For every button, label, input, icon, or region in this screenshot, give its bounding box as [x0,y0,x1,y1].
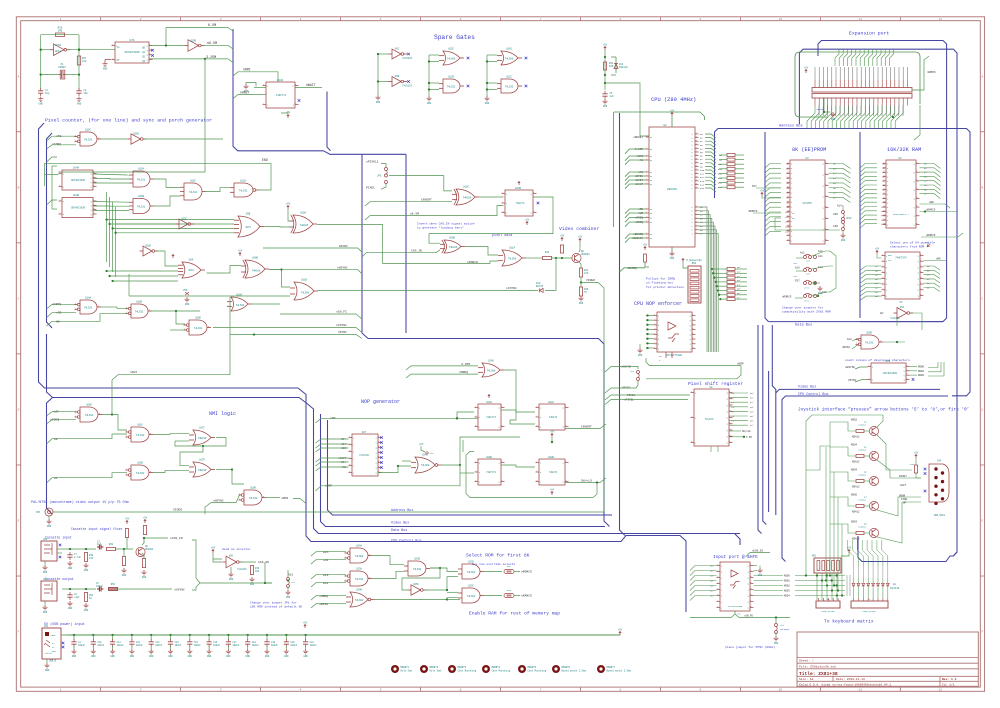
svg-text:2: 2 [565,425,566,427]
or gate U20B rowread [861,335,879,349]
wire invert to U10C [365,202,452,206]
svg-text:count column of displayed char: count column of displayed characters [845,358,910,362]
+5V inverter [212,549,214,553]
svg-text:74LS08: 74LS08 [487,370,496,373]
svg-text:6: 6 [729,422,730,424]
capacitor C6 [97,587,103,592]
transistor Q9 [136,547,145,556]
cassette output gnd [44,601,46,605]
svg-text:GND: GND [831,118,836,121]
flip-flop U13B pixeldata [505,190,533,216]
+5V pixel ff [518,181,520,185]
svg-text:6: 6 [750,594,751,596]
svg-text:1: 1 [646,175,647,177]
keyboard vertical wires up to joystick [848,540,854,566]
svg-text:Z80CPU: Z80CPU [667,188,677,191]
svg-text:3.25M: 3.25M [206,56,216,60]
svg-text:1: 1 [501,461,502,463]
svg-text:3: 3 [98,137,99,139]
wire U17D out [216,469,232,471]
svg-text:3: 3 [150,471,151,473]
svg-text:Video Bus: Video Bus [391,521,409,526]
svg-text:2: 2 [868,378,869,380]
svg-text:1: 1 [696,232,697,234]
flip-flop U28B [539,459,565,485]
wires U29B U28B [501,465,535,467]
svg-text:1: 1 [868,365,869,367]
svg-text:74LS08: 74LS08 [505,58,514,61]
svg-text:nM1: nM1 [638,171,643,174]
svg-text:74LS32: 74LS32 [413,568,422,571]
latch +5V left [876,250,878,254]
svg-text:P27: P27 [752,185,757,188]
resistor R39 [107,547,116,550]
svg-text:1: 1 [126,473,127,475]
svg-text:U13A: U13A [277,79,284,82]
bus nWAIT vertical [327,92,331,151]
svg-text:3: 3 [654,323,655,325]
svg-text:100nF: 100nF [96,585,104,588]
resistor pack A8-A15 column [727,154,735,157]
xor gate U10B porch [444,240,461,253]
q9 emitter [142,553,144,558]
or gate U24B [350,592,368,607]
svg-text:U15A: U15A [138,168,145,171]
svg-text:U19B: U19B [250,487,256,490]
svg-text:KB04: KB04 [851,444,858,447]
bus video bus horizontal [368,339,610,527]
svg-text:1: 1 [60,18,62,21]
svg-text:nRAMCS: nRAMCS [926,209,936,212]
svg-text:74LS32: 74LS32 [84,139,93,142]
vss jumper [185,292,189,295]
capacitor C5 reset [602,94,607,96]
svg-text:8: 8 [654,347,655,349]
wire inverter U25B input [166,45,185,47]
svg-text:U18A: U18A [85,297,92,300]
svg-text:Pixel shift register: Pixel shift register [688,381,743,387]
svg-text:JP1: JP1 [291,581,296,584]
svg-text:74LS32: 74LS32 [355,578,364,581]
svg-text:74HC86: 74HC86 [252,270,261,273]
svg-text:3: 3 [696,147,697,149]
wire U15A to U15C [154,179,180,188]
svg-text:VSYNC: VSYNC [338,331,347,334]
svg-text:GND: GND [638,354,643,357]
svg-text:+5V: +5V [286,202,291,205]
svg-text:A3': A3' [875,282,879,285]
svg-text:Q: Q [91,182,92,184]
svg-text:2: 2 [295,103,296,105]
svg-text:RD: RD [650,238,652,240]
and gate U15A [133,171,150,187]
and gate U23B [408,561,426,576]
svg-text:PAL/NTSC (monochrome) video ou: PAL/NTSC (monochrome) video output 1V p/… [31,500,129,505]
svg-text:7: 7 [540,18,542,21]
svg-text:Input port @ &HFE: Input port @ &HFE [713,555,758,560]
cpu left pin wires [625,149,646,154]
svg-text:1: 1 [654,314,655,316]
svg-text:3: 3 [93,181,94,183]
svg-text:74LS32: 74LS32 [194,327,203,330]
bus bottom address vertical [328,420,613,515]
svg-text:A11: A11 [718,168,723,171]
svg-text:+5V: +5V [560,234,565,237]
wire U10A out to porch [317,225,462,264]
or gate U19C [80,132,97,146]
svg-text:D0': D0' [833,163,837,166]
svg-text:Video Bus: Video Bus [798,385,816,390]
bus right vertical v3 [768,371,770,512]
svg-text:A6: A6 [640,159,644,162]
svg-text:3: 3 [349,450,350,452]
svg-text:Q: Q [727,405,728,407]
svg-text:74LS138: 74LS138 [359,454,369,457]
svg-text:on floating bus: on floating bus [646,281,673,285]
svg-text:A12: A12 [718,172,723,175]
svg-text:Q: Q [823,240,824,242]
svg-text:HM62256BLP-7: HM62256BLP-7 [893,213,909,216]
svg-text:Q: Q [914,216,915,218]
svg-text:3: 3 [93,208,94,210]
+5V reset [604,46,606,50]
svg-text:ROW1: ROW1 [918,370,925,373]
expansion pin labels upper rotated [814,67,816,80]
svg-text:1: 1 [536,461,537,463]
wire nmi cross [180,446,203,466]
svg-text:A0: A0 [56,321,60,324]
svg-text:UP: UP [903,502,907,505]
svg-text:74LS125: 74LS125 [402,57,413,60]
svg-text:KB02: KB02 [851,419,858,422]
capacitor C8 [67,595,72,597]
svg-text:Q: Q [904,379,905,381]
bus right vertical v2 [763,325,767,525]
svg-text:Q: Q [91,205,92,207]
wire buffer out [911,313,923,330]
svg-text:RD: RD [650,180,652,182]
svg-text:D7': D7' [833,196,837,199]
or gate U11B pc [294,282,314,300]
svg-text:D4': D4' [833,182,837,185]
bus right video bus horizontal [776,389,940,515]
svg-text:3: 3 [696,165,697,167]
svg-text:3: 3 [149,309,150,311]
svg-text:3: 3 [369,554,370,556]
svg-text:1: 1 [75,140,76,142]
cassette input gnd [44,561,46,565]
mounting hole MOUNT1 [391,665,399,673]
svg-text:3: 3 [916,179,917,181]
wire nCSYNC diode [545,258,556,290]
svg-text:16K: 16K [833,225,838,228]
svg-text:Q: Q [376,462,377,464]
or gate U23A [350,571,368,586]
svg-text:2: 2 [565,480,566,482]
joystick left wire loop [806,415,883,421]
keyboard matrix grid wires [795,575,845,577]
svg-text:+5V: +5V [578,235,583,238]
svg-text:RN2: RN2 [507,565,512,568]
wire nporch input [462,261,498,263]
svg-text:GND: GND [841,239,846,242]
keyboard +5V rp1 [848,549,850,553]
svg-text:Q: Q [914,198,915,200]
green feedback box [466,452,597,498]
+5V rail bottom [67,634,620,636]
svg-text:2: 2 [916,171,917,173]
no-connect wait ff [298,99,301,102]
svg-text:1: 1 [565,461,566,463]
svg-text:+5V: +5V [525,218,530,221]
svg-text:KB04: KB04 [784,595,790,598]
expansion +5V [805,69,807,73]
svg-text:74HCT74: 74HCT74 [486,471,496,474]
svg-text:74LS32: 74LS32 [467,595,476,598]
svg-text:Q: Q [914,163,915,165]
resistor R43 joystick [915,465,918,473]
svg-text:GND: GND [149,655,154,658]
svg-text:2: 2 [825,173,826,175]
svg-text:3: 3 [475,425,476,427]
wire U24B out [375,599,460,601]
svg-text:74LS08: 74LS08 [301,292,310,295]
svg-text:D0': D0' [750,392,754,395]
svg-text:Change over jumpers for: Change over jumpers for [782,306,824,310]
svg-text:12: 12 [939,689,943,692]
svg-text:D5': D5' [750,415,754,418]
wire U19D out nVSYNC [213,327,356,329]
expansion right green vertical [914,105,920,140]
resistor R37 collector [143,526,146,535]
svg-text:D6': D6' [750,420,754,423]
counter U7A 74HC393 [115,42,149,63]
svg-text:CAS_IN: CAS_IN [258,561,269,564]
svg-text:11: 11 [859,689,863,692]
svg-text:D2': D2' [833,172,837,175]
svg-text:GND: GND [303,655,308,658]
+5V tap mid caps [304,624,306,628]
nop enforcer bottom pins [665,352,667,358]
svg-text:3: 3 [692,323,693,325]
joystick kb column wires [825,423,827,576]
wire U17C out [175,438,226,447]
svg-text:74HC00: 74HC00 [198,437,207,440]
wire green loop nopgen [462,440,464,452]
jp4 wires [775,618,777,624]
svg-text:1: 1 [646,212,647,214]
svg-text:4072: 4072 [188,269,194,272]
svg-text:6: 6 [654,338,655,340]
ground C2 [76,97,81,102]
svg-text:A14: A14 [847,338,852,341]
svg-text:JP4: JP4 [780,624,785,627]
svg-text:CO4: CO4 [937,460,942,463]
latch gnd arrow [927,244,930,247]
svg-text:+5V: +5V [914,451,919,454]
svg-text:10: 10 [779,689,783,692]
resistor network RN1 [688,266,701,303]
svg-text:9: 9 [729,441,730,443]
svg-text:+5V: +5V [670,109,675,112]
svg-text:A10: A10 [718,163,723,166]
svg-text:nNOP: nNOP [737,363,744,366]
svg-text:A10: A10 [700,169,705,172]
svg-text:3: 3 [696,151,697,153]
svg-text:4.7uF: 4.7uF [74,556,82,559]
svg-text:2: 2 [750,570,751,572]
svg-text:7: 7 [540,689,542,692]
+5V U29A [488,394,490,398]
svg-text:R48: R48 [545,251,550,254]
svg-text:10: 10 [779,18,783,21]
svg-text:A13: A13 [718,177,723,180]
svg-text:D5': D5' [833,187,837,190]
svg-text:+3pF: +3pF [74,596,80,599]
svg-text:VCC: VCC [430,452,435,455]
svg-text:3: 3 [696,158,697,160]
bus right vertical v1 [758,325,762,534]
latch buffer U6A 74LS125 [897,308,907,319]
wires into U9A [156,251,178,266]
svg-text:nRFSH: nRFSH [635,175,643,178]
svg-text:1: 1 [59,172,60,174]
svg-text:4: 4 [825,195,826,197]
svg-text:Q: Q [499,462,500,464]
svg-text:1: 1 [646,233,647,235]
resistor R56 [109,587,118,590]
svg-text:Joystick interface “presses” a: Joystick interface “presses” arrow butto… [798,408,969,413]
wire U17C fb [175,440,189,442]
ram address fan [861,164,878,168]
svg-text:3: 3 [825,184,826,186]
svg-text:U12C: U12C [506,76,513,79]
svg-text:KB412: KB412 [852,436,860,439]
q9 collector wire nCAS_IN [142,538,168,545]
wire A0 to U18B [47,314,128,326]
svg-text:U23B: U23B [414,558,420,561]
buffer U6D gnd [230,567,232,572]
svg-text:KB02: KB02 [784,585,790,588]
svg-text:Q: Q [91,214,92,216]
svg-text:+5V: +5V [804,66,809,69]
svg-text:CONN_01X05: CONN_01X05 [821,610,835,613]
svg-text:nWAIT: nWAIT [635,179,643,182]
svg-text:A7': A7' [875,265,879,268]
svg-text:1: 1 [295,84,296,86]
svg-text:nRESET: nRESET [633,136,643,139]
svg-text:4: 4 [300,18,302,21]
wire n6.5M output [202,45,233,49]
wire Q8 emitter down [579,262,581,268]
svg-text:3: 3 [882,265,883,267]
svg-text:Q: Q [147,55,148,57]
svg-text:RP1: RP1 [812,555,817,558]
wire U10C out to ff [479,196,504,198]
svg-text:E: E [981,520,983,523]
svg-text:Q: Q [376,472,377,474]
svg-text:nRAMCS: nRAMCS [521,595,532,598]
svg-text:nVSYNC: nVSYNC [336,324,347,327]
svg-text:D6': D6' [833,192,837,195]
bus pixel-gen left vertical B [47,133,53,328]
svg-text:U16C: U16C [137,424,143,427]
svg-text:R39: R39 [109,543,114,546]
svg-text:D3': D3' [833,177,837,180]
svg-text:+5V: +5V [875,247,880,250]
wire 3.25M from counter [149,59,233,63]
svg-text:74LS32: 74LS32 [239,190,248,193]
wire A1 [47,473,128,483]
svg-text:HSYNC: HSYNC [339,245,348,248]
svg-text:D1': D1' [710,585,714,588]
svg-text:A: A [981,75,983,78]
svg-text:3: 3 [98,305,99,307]
wire nROMCS to border [168,571,540,573]
svg-text:KB00: KB00 [784,575,790,578]
wire osc right vertical [78,35,80,89]
resistor R34 [84,593,87,602]
svg-text:KB412: KB412 [852,538,860,541]
svg-text:Q: Q [376,457,377,459]
svg-text:nWR: nWR [929,201,934,204]
svg-text:3: 3 [696,140,697,142]
svg-text:3: 3 [208,326,209,328]
svg-text:U25A: U25A [55,44,62,47]
svg-text:Spare Gates: Spare Gates [434,34,475,41]
svg-text:Sheet: /: Sheet: / [799,659,814,663]
svg-text:3: 3 [920,265,921,267]
svg-text:1: 1 [345,556,346,558]
wire spare gates2 rail [429,54,439,56]
svg-text:KB04: KB04 [851,469,858,472]
svg-text:2N3904: 2N3904 [581,253,590,256]
svg-text:3: 3 [691,441,692,443]
joystick emitter wires to db9 [877,435,912,470]
wire crystal right [66,74,79,76]
wire nRD to U29A [456,417,458,419]
svg-text:Size: A2: Size: A2 [799,677,814,681]
+5V U9A [172,254,174,258]
wire U24D out [504,370,535,424]
and gate U15B [133,199,150,214]
svg-text:1: 1 [646,179,647,181]
cpu data pins right [695,206,699,208]
svg-text:JP12: JP12 [846,217,852,220]
svg-text:1: 1 [696,206,697,208]
inverter U25D [143,246,152,256]
keyboard RP1 pack [814,558,841,573]
resistor RN2 [504,570,514,574]
eprom +5V vpp [761,192,763,196]
svg-text:Q: Q [531,212,532,214]
svg-text:Q: Q [563,407,564,409]
svg-text:8: 8 [620,689,622,692]
svg-text:nRD: nRD [936,258,941,261]
svg-text:1: 1 [646,237,647,239]
svg-text:GND: GND [376,101,381,104]
svg-text:74LS125: 74LS125 [237,568,247,571]
svg-text:Q: Q [823,218,824,220]
svg-text:1: 1 [60,689,62,692]
svg-text:Q: Q [690,320,691,322]
svg-text:GND: GND [130,655,135,658]
wire nIN_FI [280,314,362,319]
svg-text:Id: 1/1: Id: 1/1 [942,682,955,686]
resistor R33 casin [250,566,253,575]
svg-text:50/60Hz: 50/60Hz [780,628,790,631]
svg-text:5: 5 [916,197,917,199]
